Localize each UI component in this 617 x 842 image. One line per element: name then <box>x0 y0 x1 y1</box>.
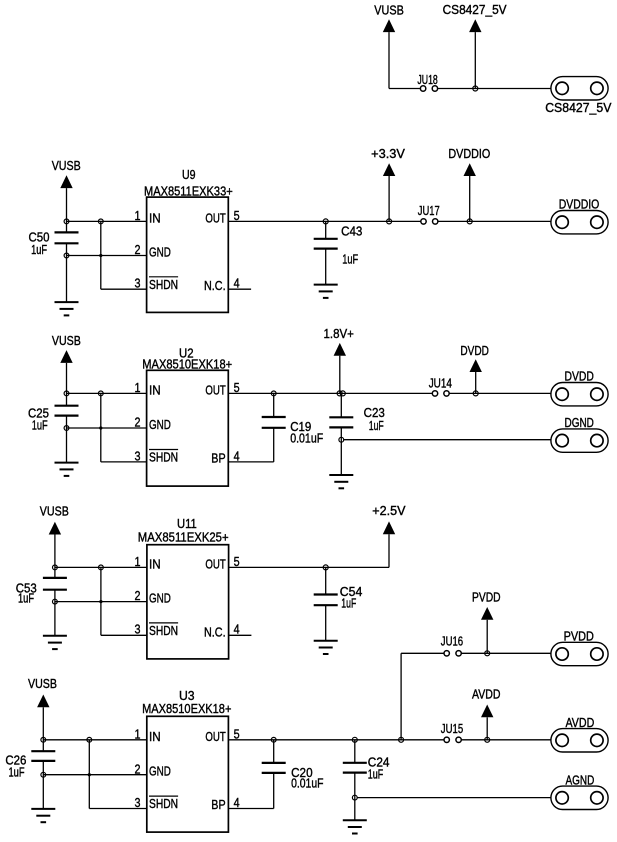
svg-text:MAX8511EXK33+: MAX8511EXK33+ <box>144 183 233 198</box>
junction node C43 on U9 OUT net <box>323 219 328 224</box>
junction node C19 on U2 OUT net <box>271 391 276 396</box>
wire C43 top stem <box>325 221 327 238</box>
svg-text:DVDD: DVDD <box>565 370 594 384</box>
svg-text:N.C.: N.C. <box>204 624 226 639</box>
ground (below C23) <box>329 475 353 488</box>
svg-text:1uF: 1uF <box>31 243 47 257</box>
junction node +3.3V on OUT net <box>387 219 392 224</box>
svg-text:1uF: 1uF <box>369 419 384 433</box>
svg-text:GND: GND <box>149 591 171 606</box>
node on IN net at SHDN branch of U11 <box>99 565 104 570</box>
svg-text:JU14: JU14 <box>429 377 452 391</box>
wire JU15 to AVDD pad <box>461 739 551 741</box>
ground (below C25) <box>55 463 79 476</box>
ground (below C43) <box>314 285 338 298</box>
connector pad AVDD <box>551 716 608 752</box>
svg-text:IN: IN <box>149 556 161 571</box>
power flag +3.3V <box>371 147 405 221</box>
svg-text:4: 4 <box>234 795 240 810</box>
wire C43 bottom to ground <box>325 249 327 285</box>
svg-text:PVDD: PVDD <box>564 630 594 644</box>
wire C23 bottom to ground <box>340 427 342 475</box>
node on GND net at cap C50 <box>64 253 69 258</box>
power flag VUSB (U2 input) <box>52 334 81 406</box>
svg-text:JU15: JU15 <box>441 722 463 736</box>
svg-text:C43: C43 <box>341 225 362 239</box>
svg-text:MAX8510EXK18+: MAX8510EXK18+ <box>142 357 232 372</box>
wire C20 top stem <box>273 740 275 763</box>
junction node C20 on U3 OUT net <box>271 737 276 742</box>
svg-text:OUT: OUT <box>205 729 225 744</box>
svg-text:JU18: JU18 <box>417 73 437 87</box>
power flag DVDDIO <box>448 147 490 221</box>
svg-text:1: 1 <box>135 554 141 569</box>
wire IN net to pin 1 of U2 <box>67 392 147 394</box>
junction node DGND branch at C23 bottom <box>339 437 344 442</box>
svg-text:4: 4 <box>234 622 240 637</box>
svg-text:+3.3V: +3.3V <box>371 147 405 161</box>
node on IN net at SHDN branch of U3 <box>87 737 92 742</box>
junction dot SHDN wire crossing GND wire of U11 <box>99 600 102 603</box>
wire PVDD net corner to JU16 <box>401 653 444 740</box>
capacitor C24 (output bypass of U3) <box>343 755 390 781</box>
node on IN net at cap C53 <box>53 565 58 570</box>
jumper JU16 <box>441 635 463 656</box>
svg-text:IN: IN <box>149 729 161 744</box>
svg-text:DGND: DGND <box>565 416 594 430</box>
svg-text:DVDDIO: DVDDIO <box>559 198 600 212</box>
capacitor C43 (output bypass of U9) <box>314 225 363 267</box>
capacitor C19 (BP bypass of U2) <box>262 417 324 446</box>
power flag VUSB (U3 input) <box>28 677 57 751</box>
wire IN net to pin 1 of U11 <box>55 566 147 568</box>
svg-text:GND: GND <box>149 245 171 260</box>
svg-text:0.01uF: 0.01uF <box>290 432 323 446</box>
svg-text:AVDD: AVDD <box>566 716 595 730</box>
svg-text:OUT: OUT <box>205 210 225 225</box>
junction node CS8427_5V net <box>473 86 478 91</box>
power flag VUSB (top net to JU18) <box>374 3 404 88</box>
regulator U3 MAX8510EXK18+ <box>135 688 240 832</box>
junction node AVDD net <box>485 737 490 742</box>
svg-text:4: 4 <box>234 448 240 463</box>
wire SHDN tie to IN of U3 <box>89 740 147 809</box>
junction dot SHDN wire crossing GND wire of U9 <box>99 254 102 257</box>
svg-text:CS8427_5V: CS8427_5V <box>443 3 508 17</box>
connector pad AGND <box>551 773 608 809</box>
wire C54 top stem <box>325 567 327 594</box>
svg-text:N.C.: N.C. <box>204 278 226 293</box>
node on GND net at cap C26 <box>41 772 46 777</box>
junction node DVDDIO net <box>467 219 472 224</box>
wire JU17 to DVDDIO pad <box>438 220 551 222</box>
power flag VUSB (U9 input) <box>52 159 81 232</box>
svg-text:MAX8511EXK25+: MAX8511EXK25+ <box>138 530 229 545</box>
regulator U9 MAX8511EXK33+ <box>135 167 240 313</box>
junction dot SHDN wire crossing GND wire of U3 <box>88 773 91 776</box>
svg-text:AVDD: AVDD <box>472 687 501 701</box>
svg-text:VUSB: VUSB <box>52 159 81 173</box>
svg-text:SHDN: SHDN <box>149 277 178 292</box>
svg-text:JU16: JU16 <box>441 635 463 649</box>
wire SHDN tie to IN of U2 <box>101 393 147 462</box>
capacitor C20 (BP bypass of U3) <box>262 763 324 791</box>
wire C20 bottom to BP pin 4 of U3 <box>228 773 273 809</box>
svg-text:2: 2 <box>135 588 141 603</box>
jumper JU17 <box>418 204 440 224</box>
wire GND net to pin 2 of U2 <box>67 427 147 429</box>
svg-text:3: 3 <box>135 448 141 463</box>
ground (below C54) <box>314 641 338 654</box>
svg-text:1: 1 <box>135 208 141 223</box>
wire AGND net to AGND pad <box>357 797 551 799</box>
power flag 1.8V+ <box>324 327 354 393</box>
node on IN net at cap C25 <box>64 391 69 396</box>
wire C19 top stem <box>273 393 275 417</box>
svg-text:2: 2 <box>135 242 141 257</box>
wire SHDN tie to IN of U11 <box>101 567 147 635</box>
svg-text:MAX8510EXK18+: MAX8510EXK18+ <box>142 701 231 716</box>
svg-text:GND: GND <box>149 764 171 779</box>
svg-text:3: 3 <box>135 622 141 637</box>
junction node C24 on U3 OUT net <box>352 737 357 742</box>
svg-text:GND: GND <box>149 417 171 432</box>
svg-text:1uF: 1uF <box>18 592 34 606</box>
wire C24 bottom to ground <box>354 773 356 821</box>
node on IN net at SHDN branch of U2 <box>98 391 103 396</box>
svg-text:OUT: OUT <box>205 556 225 571</box>
svg-text:SHDN: SHDN <box>149 623 178 638</box>
svg-text:AGND: AGND <box>566 773 595 787</box>
svg-text:4: 4 <box>234 276 240 291</box>
connector pad CS8427_5V <box>545 77 612 116</box>
wire GND net to pin 2 of U11 <box>55 601 147 603</box>
svg-text:1: 1 <box>135 380 141 395</box>
wire C23 top stem <box>340 393 342 417</box>
wire C50 bottom to ground <box>66 243 68 302</box>
connector pad PVDD <box>551 630 608 666</box>
svg-text:PVDD: PVDD <box>472 591 501 605</box>
node on IN net at cap C50 <box>64 219 69 224</box>
jumper JU15 <box>441 722 463 742</box>
node on IN net at SHDN branch of U9 <box>98 219 103 224</box>
svg-text:SHDN: SHDN <box>149 796 178 811</box>
junction dot SHDN wire crossing GND wire of U2 <box>99 426 102 429</box>
junction node AGND branch at C24 bottom <box>352 795 357 800</box>
regulator U11 MAX8511EXK25+ <box>135 516 240 659</box>
connector pad DGND <box>551 416 608 452</box>
capacitor C26 (input bypass of U3) <box>5 751 55 779</box>
wire OUT net of U9 (pin 5) to JU17 <box>228 220 420 222</box>
wire OUT net of U3 (pin 5) to JU15 <box>228 739 444 741</box>
capacitor C25 (input bypass of U2) <box>28 406 79 433</box>
regulator U2 MAX8510EXK18+ <box>135 345 240 486</box>
junction node 1.8V+ / C23 on OUT net <box>337 391 342 396</box>
wire C24 top stem <box>354 740 356 763</box>
wire C19 bottom to BP pin 4 of U2 <box>228 428 273 462</box>
svg-text:1.8V+: 1.8V+ <box>324 327 354 341</box>
power flag CS8427_5V <box>443 3 508 88</box>
svg-text:BP: BP <box>211 797 225 812</box>
svg-text:U9: U9 <box>182 167 196 182</box>
capacitor C50 (input bypass of U9) <box>29 230 79 256</box>
connector pad DVDD <box>551 370 608 406</box>
node on GND net at cap C53 <box>53 599 58 604</box>
power flag DVDD <box>460 344 489 393</box>
wire SHDN tie to IN of U9 <box>101 221 147 289</box>
svg-text:1uF: 1uF <box>341 597 356 611</box>
ground (below C53) <box>43 636 67 649</box>
svg-text:3: 3 <box>135 276 141 291</box>
svg-text:2: 2 <box>135 415 141 430</box>
svg-text:DVDD: DVDD <box>460 344 489 358</box>
ground (below C26) <box>31 809 55 822</box>
svg-text:DVDDIO: DVDDIO <box>448 147 490 161</box>
svg-text:IN: IN <box>149 210 161 225</box>
wire C26 bottom to ground <box>42 761 44 809</box>
power flag PVDD <box>472 591 501 654</box>
junction node C54 on U11 OUT net <box>323 565 328 570</box>
svg-text:IN: IN <box>149 382 161 397</box>
svg-text:VUSB: VUSB <box>374 3 404 17</box>
wire OUT net of U2 (pin 5) to JU14 <box>228 392 432 394</box>
wire VUSB to JU18 <box>389 88 420 90</box>
wire DGND net to DGND pad <box>344 439 551 441</box>
ground (below C24) <box>343 820 367 833</box>
jumper JU18 <box>417 73 437 91</box>
svg-text:SHDN: SHDN <box>149 450 178 465</box>
svg-text:JU17: JU17 <box>418 204 440 218</box>
wire GND net to pin 2 of U3 <box>43 774 147 776</box>
jumper JU14 <box>429 377 452 397</box>
svg-text:OUT: OUT <box>205 382 225 397</box>
junction node DVDD net <box>473 391 478 396</box>
svg-text:CS8427_5V: CS8427_5V <box>545 101 612 115</box>
svg-text:2: 2 <box>135 761 141 776</box>
wire C53 bottom to ground <box>54 590 56 636</box>
connector pad DVDDIO <box>551 198 608 234</box>
svg-text:0.01uF: 0.01uF <box>291 777 324 791</box>
power flag VUSB (U11 input) <box>40 505 69 578</box>
junction node PVDD net <box>485 651 490 656</box>
wire GND net to pin 2 of U9 <box>67 255 147 257</box>
node on GND net at cap C25 <box>64 426 69 431</box>
ground (below C50) <box>55 302 79 315</box>
capacitor C54 (output bypass of U11) <box>314 585 363 611</box>
junction node PVDD drop on U3 OUT net <box>399 737 404 742</box>
svg-text:1uF: 1uF <box>368 768 384 782</box>
svg-text:1: 1 <box>135 727 141 742</box>
node on IN net at cap C26 <box>41 737 46 742</box>
svg-text:1uF: 1uF <box>9 766 25 780</box>
wire JU16 to PVDD pad <box>461 652 551 654</box>
wire JU14 to DVDD pad <box>449 392 551 394</box>
pin 4 N.C. stub of U9 <box>228 288 251 290</box>
svg-text:BP: BP <box>211 451 225 466</box>
capacitor C23 (output bypass of U2) <box>329 406 385 433</box>
wire OUT net of U11 (pin 5) to +2.5V corner <box>229 566 389 568</box>
power flag +2.5V <box>372 504 406 567</box>
pin 4 N.C. stub of U11 <box>229 634 252 636</box>
wire JU18 to CS8427_5V pad <box>438 88 551 90</box>
svg-text:3: 3 <box>135 795 141 810</box>
svg-text:1uF: 1uF <box>342 252 358 266</box>
wire IN net to pin 1 of U9 <box>67 220 147 222</box>
wire C54 bottom to ground <box>325 605 327 641</box>
svg-text:VUSB: VUSB <box>40 505 69 519</box>
svg-text:+2.5V: +2.5V <box>372 504 406 518</box>
svg-text:1uF: 1uF <box>32 419 48 433</box>
wire IN net to pin 1 of U3 <box>43 739 147 741</box>
capacitor C53 (input bypass of U11) <box>16 578 67 606</box>
svg-text:VUSB: VUSB <box>52 334 81 348</box>
wire C25 bottom to ground <box>66 416 68 463</box>
svg-text:VUSB: VUSB <box>28 677 57 691</box>
power flag AVDD <box>472 687 501 740</box>
